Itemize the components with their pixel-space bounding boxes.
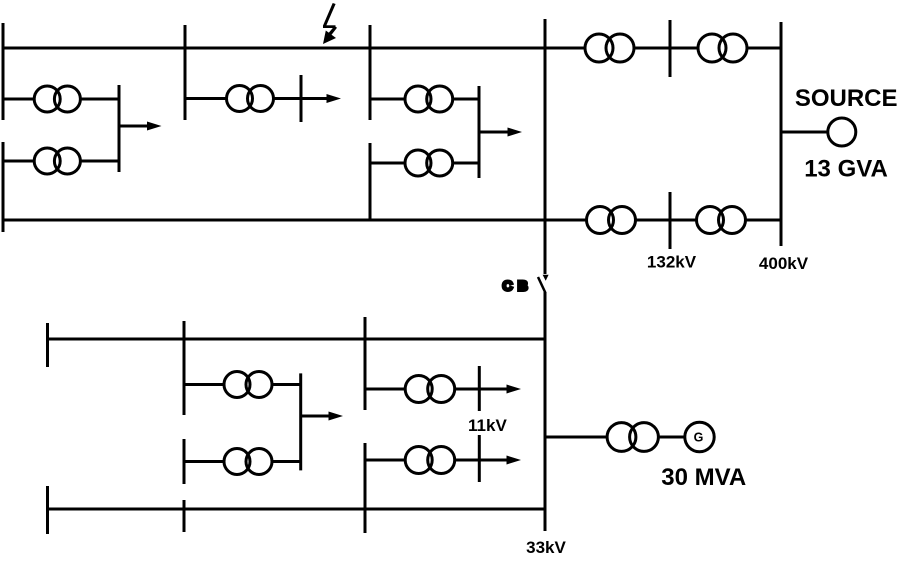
source circle	[828, 118, 856, 146]
transformer T5 (two-winding)	[405, 150, 453, 176]
svg-text:33kV: 33kV	[526, 538, 566, 557]
transformer T4 (two-winding)	[405, 86, 453, 112]
transformer T8 (bottom line)	[587, 207, 636, 234]
node collector tick col3	[478, 86, 481, 178]
node 132kV bus tick top	[669, 20, 672, 77]
transformer T1 (two-winding)	[34, 86, 80, 112]
svg-text:G: G	[694, 431, 704, 445]
node tick x184 segment 2	[183, 439, 186, 484]
transformer T2 (two-winding)	[34, 148, 80, 174]
wire row1 col2 branch	[185, 97, 301, 100]
wire main vertical tie upper (above CB)	[544, 19, 547, 274]
wire rowA col3 branch with feeder arrow	[365, 385, 521, 394]
node tick bottom-left lower	[46, 486, 49, 534]
node bus tick x185	[184, 25, 187, 120]
wire row2 col1 branch	[3, 160, 119, 163]
transformer T11 (two-winding)	[224, 449, 272, 475]
wire bottom 132kV tie line	[3, 219, 781, 222]
wire 33kV upper bus	[46, 338, 545, 341]
node collector tick bottom col2	[299, 373, 302, 470]
wire row1 col3 branch	[370, 98, 479, 101]
lightning strike symbol	[323, 3, 337, 44]
svg-text:13 GVA: 13 GVA	[804, 156, 888, 183]
node bus tick x370 lower	[369, 143, 372, 219]
node tick x365 segment 2	[364, 443, 367, 533]
wire feeder arrow col2	[301, 94, 341, 103]
node bus tick x370 upper	[369, 25, 372, 120]
node 11kV tick lower	[478, 435, 481, 482]
transformer T9 (bottom line)	[697, 207, 746, 234]
circuit breaker CB contact arrowhead	[543, 275, 549, 281]
wire rowA col2 branch	[184, 383, 301, 386]
node left bus tick upper	[2, 23, 5, 120]
node tick x184 segment 3	[183, 500, 186, 532]
generator G	[685, 422, 714, 451]
node 132kV bus tick bottom	[669, 192, 672, 249]
transformer T14 (generator step-up)	[607, 423, 658, 452]
node tick col2	[300, 75, 303, 122]
node left bus tick lower	[2, 142, 5, 232]
wire row1 col1 branch	[3, 98, 119, 101]
svg-text:CB: CB	[503, 278, 533, 294]
wire feeder arrow col1	[119, 122, 162, 131]
svg-text:30 MVA: 30 MVA	[661, 464, 746, 491]
wire generator lead	[545, 436, 608, 439]
wire source lead	[781, 131, 828, 134]
node collector tick col1	[118, 85, 121, 172]
wire rowB col2 branch	[184, 460, 301, 463]
transformer T3 (two-winding)	[227, 86, 274, 112]
svg-text:11kV: 11kV	[468, 416, 507, 435]
circuit breaker CB blade	[538, 277, 546, 293]
wire generator link	[658, 436, 685, 439]
node 11kV tick upper	[478, 366, 481, 411]
node tick x365 segment 1	[364, 317, 367, 410]
svg-text:132kV: 132kV	[647, 253, 697, 272]
wire feeder arrow col3	[479, 128, 522, 137]
wire feeder arrow bottom col2	[301, 412, 343, 421]
node tick bottom-left upper	[46, 323, 49, 367]
wire main vertical tie lower (below CB)	[544, 292, 547, 531]
transformer T13 (two-winding)	[405, 447, 455, 474]
wire top transmission bus	[3, 47, 781, 50]
node tick x184 segment 1	[183, 321, 186, 415]
wire 33kV lower bus	[46, 508, 545, 511]
transformer T12 (two-winding)	[405, 376, 455, 403]
svg-text:SOURCE: SOURCE	[795, 85, 898, 112]
transformer T7 (top line, 400kV side)	[698, 34, 747, 62]
transformer T10 (two-winding)	[224, 372, 272, 398]
wire row2 col3 branch	[370, 162, 479, 165]
transformer T6 (top line, 400kV side)	[585, 34, 634, 62]
svg-text:400kV: 400kV	[759, 254, 809, 273]
wire 400kV bus vertical	[780, 22, 783, 246]
wire rowB col3 branch with feeder arrow	[365, 456, 521, 465]
